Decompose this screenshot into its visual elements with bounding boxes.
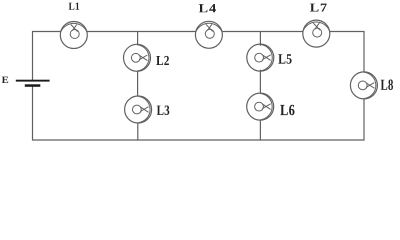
lamp L6 bbox=[247, 93, 274, 120]
label L4 bbox=[199, 4, 216, 12]
lamp L1 bbox=[60, 22, 87, 49]
lamp L7 bbox=[303, 20, 330, 47]
lamp L5 bbox=[247, 44, 274, 71]
label L3 bbox=[157, 106, 170, 116]
wire: branch 1, L3 to bottom node bbox=[137, 123, 139, 140]
wire: right rail, L8 down to bottom-right corner bbox=[363, 99, 365, 140]
wire: left rail, top corner down to battery top plate bbox=[32, 32, 34, 80]
lamp L3 bbox=[125, 96, 152, 123]
label L1 bbox=[69, 3, 80, 10]
label L2 bbox=[156, 56, 169, 65]
label L7 bbox=[310, 4, 327, 12]
wire: top rail, L4 to L7 (passes node at x=260.4) bbox=[223, 31, 302, 33]
wire: top rail, L7 to top-right corner bbox=[330, 31, 364, 33]
wire: branch 2, L5 to L6 bbox=[259, 70, 261, 93]
wire: top rail, battery+ corner to lamp L1 bbox=[33, 31, 61, 33]
battery E (cell) bbox=[16, 80, 50, 87]
wire: left rail, battery bottom plate down to bottom corner bbox=[32, 87, 34, 140]
wire: branch 2, L6 to bottom node bbox=[259, 120, 261, 140]
battery label E bbox=[2, 77, 8, 83]
label L8 bbox=[381, 80, 393, 91]
wire: right rail, corner down to lamp L8 bbox=[363, 32, 365, 73]
wire: branch 1, L2 to L3 bbox=[137, 71, 139, 96]
wire: branch 2, top node to lamp L5 bbox=[259, 32, 261, 46]
wire: bottom rail bbox=[33, 139, 365, 141]
lamp L2 bbox=[124, 44, 151, 71]
wire: branch 1, top node to lamp L2 bbox=[137, 32, 139, 45]
wire: top rail, L1 to L4 (passes node at x=137.6) bbox=[87, 31, 195, 33]
lamp L4 bbox=[195, 21, 222, 48]
label L6 bbox=[280, 105, 294, 116]
lamp L8 bbox=[350, 72, 377, 99]
label L5 bbox=[278, 54, 291, 63]
